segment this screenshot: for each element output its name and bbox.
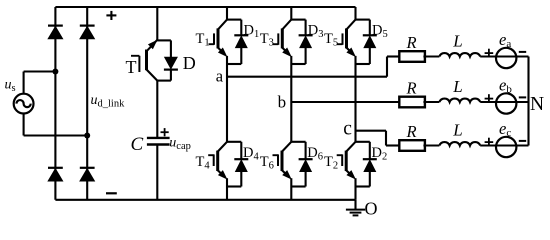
label C bbox=[131, 134, 144, 155]
svg-text:D5: D5 bbox=[372, 23, 388, 41]
svg-text:D: D bbox=[183, 53, 196, 73]
transistor T1 bbox=[209, 20, 228, 56]
resistor R phase c bbox=[399, 140, 425, 151]
svg-text:D2: D2 bbox=[372, 145, 388, 163]
wire leg bottom x=291.3 bbox=[290, 178, 292, 200]
label D1 bbox=[244, 23, 260, 41]
label D5 bbox=[372, 23, 388, 41]
inductor L phase b bbox=[439, 99, 480, 102]
svg-text:C: C bbox=[131, 134, 144, 155]
wire u_s top terminal bbox=[24, 72, 56, 94]
diode bridge bottom-right bbox=[80, 168, 95, 181]
svg-text:D4: D4 bbox=[243, 145, 259, 163]
wire bottom DC rail bbox=[55, 199, 355, 201]
svg-text:N: N bbox=[530, 94, 544, 115]
svg-text:L: L bbox=[452, 77, 462, 96]
transistor T2 bbox=[337, 142, 356, 179]
label e_a bbox=[499, 30, 511, 50]
diode D branch bbox=[157, 40, 178, 80]
resistor R phase b bbox=[399, 97, 425, 108]
label O bbox=[365, 199, 378, 219]
resistor R phase a bbox=[399, 51, 425, 62]
label D3 bbox=[308, 23, 324, 41]
label L phase c bbox=[452, 121, 462, 140]
wire R-L phase c bbox=[423, 144, 439, 146]
diode D1 branch bbox=[227, 20, 248, 64]
inductor L phase c bbox=[439, 142, 480, 145]
wire leg top (rail to split) x=291.3 bbox=[290, 7, 292, 20]
transistor T5 bbox=[337, 20, 356, 56]
source u_s circle bbox=[14, 94, 34, 114]
label + dc link bbox=[106, 11, 116, 20]
label e_b bbox=[499, 76, 512, 96]
svg-text:us: us bbox=[5, 78, 16, 95]
node c label bbox=[343, 119, 352, 140]
diode D6 branch bbox=[291, 142, 312, 187]
svg-text:eb: eb bbox=[499, 76, 512, 96]
svg-text:D3: D3 bbox=[308, 23, 324, 41]
label - phase b bbox=[519, 96, 526, 98]
svg-text:T6: T6 bbox=[260, 154, 274, 172]
wire leg bottom x=227.0 bbox=[226, 178, 228, 200]
label u_s bbox=[5, 78, 16, 95]
transistor T (brake chopper) bbox=[131, 40, 157, 72]
node junction us-bottom bbox=[84, 133, 90, 139]
ground symbol O bbox=[346, 200, 365, 216]
svg-text:T5: T5 bbox=[324, 31, 338, 49]
label - phase c bbox=[519, 140, 526, 142]
wire phase a bbox=[227, 57, 399, 77]
wire chopper emitter-diode rail bbox=[156, 7, 158, 40]
label R phase c bbox=[405, 122, 416, 141]
label T bbox=[126, 57, 137, 77]
svg-text:R: R bbox=[405, 78, 416, 97]
wire phase c bbox=[356, 131, 399, 146]
svg-text:ud_link: ud_link bbox=[91, 93, 126, 110]
diode D4 branch bbox=[227, 142, 248, 187]
label u_cap bbox=[169, 136, 191, 153]
label R phase b bbox=[405, 78, 416, 97]
label - dc link bbox=[106, 192, 117, 194]
label D4 bbox=[243, 145, 259, 163]
capacitor C bbox=[147, 138, 170, 145]
svg-text:ucap: ucap bbox=[169, 136, 191, 153]
wire leg middle x=291.3 bbox=[290, 56, 292, 142]
svg-text:T2: T2 bbox=[324, 154, 338, 172]
label T2 bbox=[324, 154, 338, 172]
svg-text:ec: ec bbox=[499, 119, 511, 139]
label T3 bbox=[260, 31, 274, 49]
label D6 bbox=[307, 145, 323, 163]
diode D5 branch bbox=[356, 20, 377, 64]
wire leg middle x=227.0 bbox=[226, 56, 228, 142]
wire leg middle x=355.5 bbox=[354, 56, 356, 142]
label T6 bbox=[260, 154, 274, 172]
svg-text:L: L bbox=[452, 32, 462, 51]
svg-text:T4: T4 bbox=[196, 154, 211, 172]
label T4 bbox=[196, 154, 211, 172]
wire neutral bus N bbox=[527, 57, 529, 146]
transistor T4 bbox=[208, 142, 227, 179]
transistor T collector slant bbox=[147, 70, 158, 81]
svg-text:T1: T1 bbox=[196, 31, 210, 49]
svg-text:T3: T3 bbox=[260, 31, 274, 49]
label T1 bbox=[196, 31, 210, 49]
diode D3 branch bbox=[291, 20, 312, 64]
svg-text:a: a bbox=[216, 67, 224, 86]
wire R-L phase a bbox=[423, 55, 439, 57]
label + phase a bbox=[485, 49, 494, 58]
label L phase a bbox=[452, 32, 462, 51]
wire phase b bbox=[291, 101, 398, 103]
wire leg top (rail to split) x=355.5 bbox=[354, 7, 356, 20]
svg-text:R: R bbox=[405, 33, 416, 52]
wire L-source phase a bbox=[480, 55, 528, 57]
wire top DC rail bbox=[55, 6, 355, 8]
transistor T3 bbox=[273, 20, 292, 56]
diode bridge top-right bbox=[80, 26, 95, 39]
wire bridge left leg bbox=[54, 7, 56, 200]
wire chopper to capacitor bbox=[156, 81, 158, 138]
wire u_s bottom terminal bbox=[24, 114, 88, 136]
label L phase b bbox=[452, 77, 462, 96]
svg-text:D6: D6 bbox=[307, 145, 323, 163]
label e_c bbox=[499, 119, 511, 139]
transistor T6 bbox=[273, 142, 292, 179]
diode bridge bottom-left bbox=[48, 168, 63, 181]
label u_d_link bbox=[91, 93, 126, 110]
wire leg bottom x=355.5 bbox=[354, 178, 356, 200]
diode D2 branch bbox=[356, 142, 377, 187]
diode bridge top-left bbox=[48, 26, 63, 39]
label D2 bbox=[372, 145, 388, 163]
svg-text:b: b bbox=[278, 93, 287, 112]
wire capacitor to bottom rail bbox=[156, 145, 158, 200]
svg-text:ea: ea bbox=[499, 30, 511, 50]
wire bridge right leg bbox=[86, 7, 88, 200]
svg-text:R: R bbox=[405, 122, 416, 141]
label T5 bbox=[324, 31, 338, 49]
label N bbox=[530, 94, 544, 115]
wire L-source phase b bbox=[480, 101, 528, 103]
node junction us-top bbox=[52, 69, 58, 75]
svg-text:c: c bbox=[343, 119, 352, 140]
node b label bbox=[278, 93, 287, 112]
svg-text:D1: D1 bbox=[244, 23, 260, 41]
label - phase a bbox=[519, 51, 526, 53]
node a label bbox=[216, 67, 224, 86]
wire leg top (rail to split) x=227.0 bbox=[226, 7, 228, 20]
label D bbox=[183, 53, 196, 73]
source e_c circle bbox=[496, 137, 516, 157]
source e_b circle bbox=[496, 93, 516, 113]
label + phase b bbox=[485, 94, 494, 103]
wire R-L phase b bbox=[423, 101, 439, 103]
source e_a circle bbox=[496, 48, 516, 68]
svg-text:O: O bbox=[365, 199, 378, 219]
svg-text:T: T bbox=[126, 57, 137, 77]
label + capacitor bbox=[161, 128, 169, 136]
svg-text:L: L bbox=[452, 121, 462, 140]
label R phase a bbox=[405, 33, 416, 52]
wire L-source phase c bbox=[480, 144, 528, 146]
inductor L phase a bbox=[439, 53, 480, 56]
label + phase c bbox=[485, 138, 494, 147]
